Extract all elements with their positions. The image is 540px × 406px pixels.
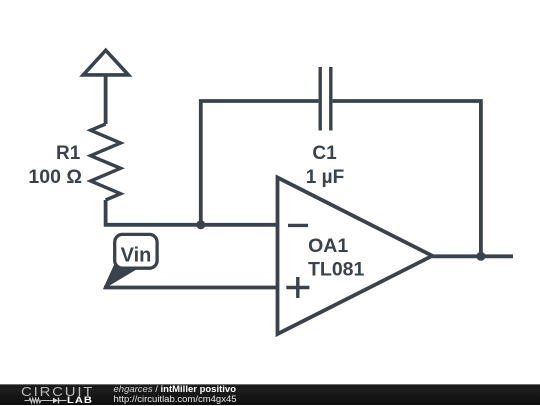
op-amp OA1 triangle	[278, 178, 433, 335]
svg-text:1 µF: 1 µF	[306, 167, 344, 188]
node junction dot A	[196, 220, 205, 229]
wire from flag to resistor	[104, 76, 108, 125]
wire node up and top rail left of capacitor	[201, 101, 319, 225]
node junction dot output	[476, 252, 485, 261]
svg-text:OA1: OA1	[308, 235, 348, 257]
logo circuit glyph: wire, resistor zigzag, diode	[24, 396, 68, 405]
svg-text:C1: C1	[312, 143, 337, 164]
Vin flag tail	[105, 262, 139, 288]
svg-text:Vin: Vin	[121, 245, 152, 267]
Vin flag box	[115, 234, 157, 268]
output wire	[432, 254, 513, 258]
op-amp minus sign	[288, 224, 308, 227]
footer bar	[0, 384, 540, 405]
circuitlab logo	[21, 384, 99, 405]
capacitor C1 plates	[320, 67, 331, 131]
credit text	[114, 385, 237, 405]
op-amp plus sign	[286, 277, 309, 298]
svg-text:100 Ω: 100 Ω	[28, 166, 82, 188]
footer bar backdrop	[0, 384, 540, 405]
wire resistor bottom to minus-input run	[106, 200, 278, 225]
power flag triangle	[83, 50, 128, 75]
plus input wire	[104, 286, 278, 290]
svg-text:TL081: TL081	[308, 259, 365, 281]
svg-text:R1: R1	[56, 143, 81, 164]
resistor R1	[91, 124, 121, 200]
top rail right of capacitor down to output node	[333, 101, 481, 256]
